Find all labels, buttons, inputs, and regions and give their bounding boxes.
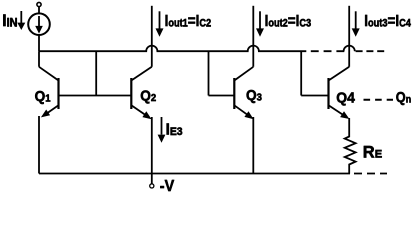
svg-text:Q1: Q1 bbox=[35, 88, 51, 105]
wire: current source to bus bbox=[38, 35, 40, 51]
transistor Q4 bbox=[329, 67, 350, 119]
wire: riser bus->base Q3 bbox=[208, 51, 210, 95]
wire: Q2 collector vertical (Iout1) bbox=[151, 6, 153, 67]
wire: bottom rail bbox=[39, 173, 350, 175]
transistor Q2 bbox=[131, 67, 152, 119]
wire: hop at Iout3 bbox=[344, 46, 355, 52]
wire: bus (base rail) with hops bbox=[39, 46, 306, 52]
wire: base lead Q3 bbox=[209, 95, 235, 97]
svg-text:Iout1=IC2: Iout1=IC2 bbox=[165, 13, 212, 30]
wire: riser bus->base line Q1/Q2 bbox=[95, 51, 97, 95]
wire: riser bus->base Q4 bbox=[300, 51, 302, 95]
arrow Iout2 bbox=[256, 11, 264, 37]
wire: bus dashed continuation bbox=[311, 50, 345, 52]
label I_IN with arrow bbox=[17, 11, 25, 30]
wire: Q2 emitter down bbox=[151, 117, 153, 174]
transistor Q3 bbox=[234, 67, 253, 119]
svg-text:Q3: Q3 bbox=[246, 87, 262, 104]
wire: bottom rail dashed bbox=[354, 173, 387, 175]
current source I_IN bbox=[28, 2, 50, 35]
arrow Iout1 bbox=[156, 11, 164, 37]
wire: Q4 collector vertical (Iout3) bbox=[348, 6, 350, 67]
arrow I_E3 bbox=[158, 117, 166, 143]
wire: Q1 emitter down bbox=[38, 116, 40, 174]
arrow Iout3 bbox=[352, 11, 360, 37]
svg-text:Q2: Q2 bbox=[140, 88, 156, 105]
svg-text:Iout2=IC3: Iout2=IC3 bbox=[265, 13, 312, 30]
svg-text:RE: RE bbox=[363, 142, 383, 161]
wire: Q3 collector vertical (Iout2) bbox=[252, 6, 254, 67]
svg-text:Qn: Qn bbox=[396, 88, 411, 106]
wire: base line Q1-Q2 bbox=[59, 95, 132, 97]
resistor R_E bbox=[345, 118, 356, 174]
transistor Q1 bbox=[39, 67, 59, 118]
dashed link Q4 to Qn bbox=[364, 99, 394, 101]
terminal -V bbox=[150, 174, 154, 188]
svg-text:IIN: IIN bbox=[2, 12, 17, 30]
wire: base lead Q4 bbox=[301, 95, 328, 97]
svg-text:-V: -V bbox=[160, 177, 175, 195]
svg-text:Iout3=IC4: Iout3=IC4 bbox=[364, 13, 411, 30]
svg-text:IE3: IE3 bbox=[166, 121, 183, 138]
svg-text:Q4: Q4 bbox=[336, 90, 355, 107]
wire: Q1 collector to bus bbox=[38, 51, 40, 67]
wire: Q3 emitter down bbox=[252, 117, 254, 174]
